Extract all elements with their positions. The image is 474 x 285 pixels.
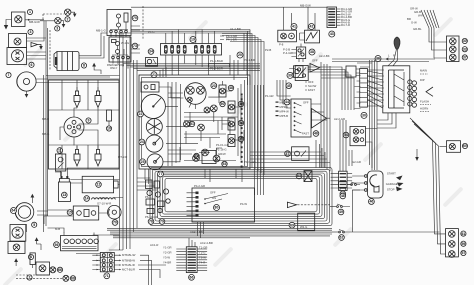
number 24: [139, 139, 145, 145]
svg-text:45: 45: [287, 84, 291, 88]
svg-text:30: 30: [463, 39, 467, 43]
svg-text:64: 64: [12, 209, 16, 213]
terminal number circles: [412, 81, 416, 107]
left risers to label box: [109, 236, 130, 250]
svg-text:G2-GR: G2-GR: [352, 160, 361, 164]
risers from flasher boxes: [284, 7, 316, 62]
oil switch 11: [55, 154, 65, 171]
svg-text:Y3-W: Y3-W: [163, 256, 170, 260]
cigar lighter 67: [339, 182, 348, 191]
number 3 circle: [28, 29, 33, 34]
number 54: [238, 120, 243, 125]
number 20: [237, 52, 243, 58]
svg-text:51: 51: [190, 122, 194, 126]
inner divider: [49, 80, 120, 169]
svg-text:21: 21: [152, 73, 156, 77]
condenser 10: [107, 110, 112, 126]
number 23: [211, 83, 217, 89]
number 48b: [340, 193, 346, 199]
extra holder box: [202, 151, 216, 164]
dashed line right of relays: [142, 6, 144, 40]
number 21: [151, 72, 157, 78]
svg-text:MT8NB-W: MT8NB-W: [122, 258, 135, 262]
svg-text:ONLY: ONLY: [110, 66, 118, 70]
flasher lamp 66b: [50, 267, 56, 273]
ladder risers: [340, 120, 346, 171]
dashed feed: [49, 30, 51, 70]
svg-text:G7-10-W-R: G7-10-W-R: [97, 202, 111, 206]
svg-text:P6-G: P6-G: [145, 195, 152, 199]
bus bracket labels: [209, 58, 255, 71]
fuse riser wires: [166, 30, 215, 40]
coil 13: [58, 176, 70, 202]
svg-text:G-W: G-W: [411, 21, 417, 25]
distributor 9: [64, 117, 84, 137]
svg-text:3: 3: [56, 27, 58, 31]
svg-text:MB-G/W: MB-G/W: [300, 4, 311, 8]
loops to left bundle links: [137, 178, 158, 190]
svg-text:P4-W: P4-W: [240, 202, 247, 206]
svg-text:AC2-4-BR: AC2-4-BR: [200, 241, 213, 245]
heater blower triangle: [312, 109, 327, 129]
svg-text:33: 33: [463, 47, 467, 51]
ignition switch 35: [368, 171, 384, 198]
ignition ladder connector: [331, 171, 365, 190]
numbers right of top lamp cluster: [462, 38, 467, 43]
right long verticals: [433, 140, 446, 254]
svg-text:22: 22: [139, 112, 143, 116]
svg-text:61: 61: [461, 232, 465, 236]
svg-text:P1-F1-GR: P1-F1-GR: [216, 143, 229, 147]
bus corner right drops: [252, 90, 264, 175]
horn 7: [17, 72, 36, 91]
ground arrow up bottomleft: [14, 258, 18, 266]
wire lighter to contact62: [353, 190, 361, 232]
rear lamp cluster: [446, 229, 459, 258]
number 19: [190, 37, 196, 43]
fuel gauge big: [185, 83, 207, 109]
number 78: [148, 219, 154, 225]
svg-text:5: 5: [33, 223, 35, 227]
number under lamp2: [65, 17, 70, 22]
svg-text:48: 48: [229, 86, 233, 90]
voltage stabilizer box: [141, 82, 159, 92]
column switch bottom drops: [377, 113, 396, 128]
cluster bottom lamp: [193, 155, 200, 162]
ground arrow up near starter: [92, 63, 101, 74]
column switch housing: [383, 66, 410, 113]
number 43: [329, 31, 335, 37]
gauge 3: [146, 135, 163, 152]
svg-text:MP5-B: MP5-B: [280, 114, 289, 118]
horn arrow symbol: [310, 59, 320, 73]
svg-text:MAIN: MAIN: [420, 69, 427, 73]
contact switch right of lighter: [347, 182, 360, 185]
svg-text:41: 41: [292, 25, 296, 29]
svg-text:M-B: M-B: [55, 227, 60, 231]
number 49: [238, 101, 243, 106]
bus corner drops left: [160, 67, 166, 77]
svg-text:OFF: OFF: [312, 59, 318, 63]
svg-text:44: 44: [285, 100, 289, 104]
vertical feed lines x46: [44, 21, 48, 232]
pilot lamp pair box: [350, 126, 365, 145]
number 54b: [343, 132, 349, 138]
gauge fan: [146, 119, 162, 135]
number 70: [132, 15, 138, 21]
number 8: [81, 63, 86, 68]
ignition labels: [386, 172, 404, 192]
cluster to riser links: [250, 152, 330, 163]
right head lamp cluster top: [447, 36, 460, 62]
switch80 pin drops: [198, 222, 204, 238]
relay 39: [289, 66, 308, 81]
svg-text:70: 70: [133, 16, 137, 20]
svg-text:14: 14: [85, 197, 89, 201]
battery feed wire: [48, 228, 120, 254]
wiper motor 45: [294, 66, 304, 78]
rear lamp numbers: [461, 231, 466, 236]
ground arrow lamp2: [71, 12, 77, 17]
number 11: [57, 148, 63, 154]
svg-text:A2-2-BK: A2-2-BK: [319, 54, 330, 58]
svg-text:62: 62: [340, 236, 344, 240]
svg-text:8: 8: [83, 64, 85, 68]
svg-text:46: 46: [314, 132, 318, 136]
connector 71 labels right: [114, 253, 166, 285]
heater switch 44: [291, 99, 311, 137]
svg-text:HORN: HORN: [420, 107, 428, 111]
heater switch stubs: [311, 104, 330, 120]
svg-text:Y1-GR: Y1-GR: [163, 246, 172, 250]
svg-text:OFF: OFF: [303, 101, 309, 105]
svg-text:19: 19: [191, 38, 195, 42]
headlamp pilot box 3: [9, 34, 27, 48]
svg-text:3: 3: [30, 30, 32, 34]
top bus wires: [118, 30, 250, 34]
svg-text:R: R: [393, 54, 395, 58]
number 12: [96, 182, 102, 188]
number 51: [189, 121, 194, 126]
svg-text:57: 57: [461, 251, 465, 255]
number 36: [375, 56, 381, 62]
feed box left of strip: [346, 66, 360, 77]
washer pump box 69: [298, 213, 315, 231]
right vertical bundle upper: [429, 28, 447, 58]
svg-text:GARAGE: GARAGE: [386, 182, 398, 186]
number 67: [340, 191, 346, 197]
relay box 73: [109, 37, 140, 62]
svg-text:80: 80: [215, 206, 219, 210]
svg-text:MT6-BL/R: MT6-BL/R: [122, 263, 135, 267]
number under lamp3: [55, 26, 60, 31]
flasher unit 42: [300, 30, 320, 43]
wire corners to right mid: [308, 67, 354, 110]
headlamp to bundle wires: [46, 76, 120, 78]
dynamo 70b: [108, 205, 122, 219]
wire bundle corner down right of fusebox: [222, 30, 264, 91]
svg-text:FLASH: FLASH: [420, 99, 429, 103]
top feed wire: [131, 4, 327, 8]
svg-text:Y2-GR: Y2-GR: [163, 251, 172, 255]
number 49b: [338, 209, 344, 215]
svg-text:49: 49: [339, 210, 343, 214]
svg-text:START: START: [387, 172, 396, 176]
svg-text:53: 53: [223, 162, 227, 166]
svg-text:DIP: DIP: [420, 78, 425, 82]
svg-text:G7-W: G7-W: [100, 196, 108, 200]
heater feed corners: [277, 80, 291, 108]
lamp holder rect c: [228, 118, 235, 130]
number 2b: [27, 275, 32, 280]
component 33: [146, 58, 158, 67]
ht leads: [60, 80, 98, 146]
svg-text:MCT-BL/R: MCT-BL/R: [122, 268, 135, 272]
number 80: [214, 205, 220, 211]
fuse terminals top: [166, 39, 215, 44]
svg-text:MB-1-G: MB-1-G: [96, 29, 106, 33]
gear lever knob: [388, 37, 400, 66]
svg-text:77: 77: [159, 172, 163, 176]
number 77: [158, 171, 164, 177]
svg-text:43: 43: [330, 32, 334, 36]
parcel van only label: [107, 63, 124, 70]
number 7: [6, 72, 11, 77]
svg-text:23: 23: [212, 84, 216, 88]
lever arrows: [386, 54, 395, 61]
svg-text:39: 39: [288, 74, 292, 78]
lower horizontal harness: [107, 228, 332, 238]
headlamp main box 5: [7, 48, 27, 65]
spark plug 3: [74, 146, 80, 167]
left vertical harness bundle: [120, 33, 138, 250]
warning lamp b: [198, 124, 205, 131]
small switch boxes: [145, 180, 170, 219]
number 79: [159, 219, 165, 225]
svg-text:P2-B: P2-B: [265, 48, 271, 52]
svg-text:59: 59: [461, 242, 465, 246]
switch feed stubs: [187, 193, 196, 216]
cluster inner wiring: [159, 87, 244, 162]
number 71: [104, 273, 110, 279]
svg-text:AC1-R: AC1-R: [150, 243, 158, 247]
alternator ground: [31, 194, 35, 203]
svg-text:GR/W: GR/W: [218, 152, 226, 156]
starter wires: [79, 56, 90, 58]
relay 38: [283, 47, 306, 59]
number 60b: [462, 143, 467, 148]
svg-text:P1-G: P1-G: [148, 30, 155, 34]
svg-text:24: 24: [140, 140, 144, 144]
top right diagonal fan labels: [407, 7, 439, 29]
connector strip top right 43: [327, 7, 337, 28]
number 44: [284, 99, 290, 105]
svg-text:A2-2-GR: A2-2-GR: [334, 117, 345, 121]
number 34: [148, 49, 154, 55]
svg-text:13: 13: [62, 193, 66, 197]
number 64: [11, 208, 17, 214]
dipped beam arrow: [31, 43, 43, 50]
lamp holder rect d: [228, 135, 235, 147]
ignition feeds: [349, 150, 352, 166]
number 22: [138, 111, 144, 117]
svg-text:T4-R: T4-R: [199, 261, 205, 265]
relay small box bottom left: [30, 253, 35, 268]
svg-text:MT8-BL/W: MT8-BL/W: [122, 253, 136, 257]
multi connector 66: [186, 247, 197, 273]
hazard switch box 41: [278, 30, 297, 46]
svg-text:66: 66: [58, 268, 62, 272]
number 10: [106, 126, 111, 131]
wiper switch labels: [305, 80, 317, 92]
oil switch wire: [60, 148, 62, 176]
svg-text:P1-1-BGR: P1-1-BGR: [210, 59, 223, 63]
number 63: [296, 173, 302, 179]
scattered wire labels: [42, 27, 422, 247]
number 14: [84, 196, 90, 202]
number 52: [194, 153, 199, 158]
fusebox dropdowns: [166, 60, 215, 75]
spark plug 2: [95, 87, 101, 108]
center risers fuse to cluster: [230, 33, 247, 80]
svg-text:50: 50: [221, 102, 225, 106]
fuse terminals bottom: [166, 55, 215, 60]
lamp 3: [55, 18, 61, 24]
number 38: [309, 49, 315, 55]
svg-text:MP3-G: MP3-G: [280, 105, 289, 109]
svg-text:W-1-G: W-1-G: [121, 41, 129, 45]
fuse box 19: [161, 44, 222, 56]
cluster outer box: [139, 75, 250, 169]
gauge 4: [147, 154, 163, 170]
svg-text:11: 11: [58, 149, 62, 153]
alternator 64: [15, 203, 34, 222]
svg-text:60: 60: [463, 144, 467, 148]
wires from headlamps right: [27, 52, 47, 59]
starter motor 8: [54, 52, 79, 71]
column switch terminal rings: [408, 80, 412, 106]
nested loop to heater risers: [316, 140, 325, 168]
horizontal bus under fusebox: [123, 64, 260, 71]
headlamp link wires: [27, 21, 47, 41]
MAIN DIAGRAM: [4, 6, 243, 232]
svg-text:MB-G/W: MB-G/W: [29, 20, 40, 24]
diagonal feeds to rear: [410, 118, 439, 146]
right riser bundle long: [321, 62, 330, 171]
lh sidelamp box 2: [36, 262, 50, 275]
right bundle verticals: [370, 60, 378, 170]
svg-text:P4-2-GR: P4-2-GR: [194, 184, 205, 188]
number 15: [67, 210, 73, 216]
heater label stack: [276, 101, 290, 119]
connector labels: [337, 7, 353, 27]
number 1: [27, 9, 32, 14]
number 9: [86, 118, 91, 123]
cluster pcb pin column: [241, 94, 243, 168]
number 66b: [57, 267, 62, 272]
svg-text:MB-G: MB-G: [42, 132, 49, 136]
relay box 70: [107, 10, 140, 36]
svg-text:A1-2-BR: A1-2-BR: [230, 27, 241, 31]
nested loop wires: [150, 168, 332, 226]
reverse lamp box: [447, 141, 461, 153]
lamp 2 (top): [65, 9, 71, 15]
number 53: [222, 161, 227, 166]
svg-text:P-8: P-8: [279, 43, 284, 47]
number 46: [369, 199, 375, 205]
starter to relay wire: [90, 33, 108, 58]
lamp holder rect b: [228, 101, 235, 113]
fuses: [164, 45, 216, 53]
svg-text:78: 78: [149, 220, 153, 224]
ground arrow lamp3: [61, 21, 65, 28]
svg-text:FAST: FAST: [302, 132, 309, 136]
svg-text:25: 25: [141, 160, 145, 164]
column switch connector strip: [360, 69, 368, 108]
resistor 14: [92, 198, 116, 206]
striped connector labels: [163, 246, 207, 265]
svg-text:71: 71: [105, 274, 109, 278]
svg-text:34: 34: [149, 50, 153, 54]
svg-text:OFF: OFF: [210, 191, 216, 195]
cluster wiring mesh: [168, 80, 245, 166]
number 70b: [112, 220, 118, 226]
svg-text:38: 38: [310, 50, 314, 54]
svg-text:6: 6: [31, 63, 33, 67]
horn feed wires: [36, 79, 120, 83]
lamp holder rect a: [219, 81, 226, 97]
number 30 below strip: [361, 112, 367, 118]
svg-text:66: 66: [190, 276, 194, 280]
svg-text:1: 1: [29, 10, 31, 14]
svg-text:70: 70: [113, 221, 117, 225]
contact 62: [332, 230, 353, 233]
svg-text:R4-7-R: R4-7-R: [341, 23, 350, 27]
ground arrow right mid: [415, 149, 419, 161]
svg-text:MT-2-R: MT-2-R: [118, 155, 127, 159]
extra warning lamp e: [184, 121, 190, 127]
lh headlamp main box: [10, 225, 26, 242]
engine compartment box: [49, 80, 120, 169]
dashed lamp feeds: [16, 275, 63, 278]
cluster label rows: [216, 143, 229, 156]
svg-text:2: 2: [67, 18, 69, 22]
alternator wires: [27, 211, 49, 232]
svg-text:MB-R: MB-R: [42, 117, 49, 121]
main connector 71: [92, 253, 114, 272]
svg-text:20: 20: [238, 53, 242, 57]
svg-text:79: 79: [160, 220, 164, 224]
number 25: [140, 159, 146, 165]
number 55: [238, 136, 243, 141]
washer jet: [287, 202, 330, 208]
ground arrow battery: [35, 237, 41, 250]
reverse lamp wire: [440, 146, 447, 148]
number 69: [289, 222, 295, 228]
svg-text:73: 73: [133, 44, 137, 48]
svg-text:W-R: W-R: [418, 14, 424, 18]
svg-text:MP4-W: MP4-W: [280, 110, 290, 114]
number 42: [309, 24, 315, 30]
dashed wire top: [43, 14, 64, 21]
svg-text:FAST: FAST: [308, 88, 315, 92]
battery 56: [61, 233, 99, 251]
svg-text:42: 42: [310, 25, 314, 29]
right bundle feeds: [332, 59, 435, 109]
ground arrow left of lamp 1: [4, 20, 12, 30]
horn ground: [25, 91, 29, 98]
spark plug 1: [74, 87, 80, 108]
